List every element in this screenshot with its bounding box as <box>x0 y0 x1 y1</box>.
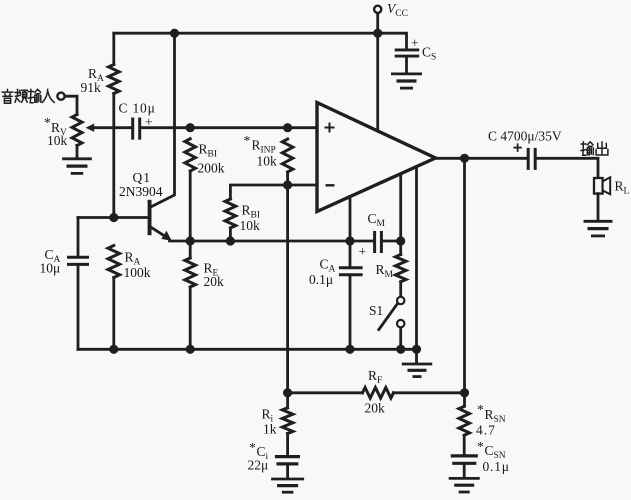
capacitor C 4700u/35V <box>488 129 562 170</box>
svg-text:+: + <box>411 36 419 51</box>
svg-text:20k: 20k <box>204 274 225 289</box>
node RF right junction <box>460 388 469 397</box>
capacitor C 10u coupling <box>119 101 156 140</box>
resistor RM <box>376 241 407 297</box>
resistor RF 20k <box>288 368 465 415</box>
svg-text:2N3904: 2N3904 <box>119 184 163 199</box>
wire output to RF <box>463 158 466 392</box>
svg-text:*: * <box>477 402 484 417</box>
node inverting input junction <box>283 180 292 189</box>
node top rail junction <box>170 29 179 38</box>
node Vcc junction <box>373 29 382 38</box>
node main line RBI junction <box>186 123 195 132</box>
svg-text:1k: 1k <box>263 422 277 437</box>
node RE rail junction <box>186 345 195 354</box>
ground below speaker <box>584 221 613 236</box>
node output junction <box>460 154 469 163</box>
svg-text:Q1: Q1 <box>133 170 152 185</box>
svg-text:*: * <box>477 439 484 454</box>
svg-text:4.7: 4.7 <box>476 423 496 438</box>
resistor RSN 4.7 <box>459 393 506 455</box>
resistor RA 100k <box>108 246 151 350</box>
svg-text:200k: 200k <box>198 161 225 176</box>
wire top supply rail <box>114 32 378 35</box>
svg-text:10k: 10k <box>240 218 261 233</box>
resistor RBI 10k <box>225 185 288 241</box>
node rail end junction <box>412 345 421 354</box>
transistor Q1 2N3904 <box>78 170 172 241</box>
wire input to potentiometer <box>65 96 77 114</box>
svg-text:10k: 10k <box>257 154 278 169</box>
node RF left junction <box>283 388 292 397</box>
svg-text:20k: 20k <box>365 400 386 415</box>
node main line RINP junction <box>283 123 292 132</box>
svg-text:0.1μ: 0.1μ <box>483 459 510 474</box>
wire emitter row <box>170 240 374 243</box>
switch S1 <box>369 297 404 350</box>
potentiometer RV 10k <box>44 115 94 159</box>
svg-text:10μ: 10μ <box>40 261 61 276</box>
ground below Ci <box>271 479 304 492</box>
wire inverting input down to RF node <box>286 185 289 393</box>
svg-text:*: * <box>249 440 256 455</box>
wire op-amp pin to emitter row node <box>349 197 352 242</box>
wire Vcc to op-amp V+ pin <box>376 33 379 131</box>
input terminal <box>57 93 64 100</box>
resistor Ri 1k <box>262 393 293 455</box>
svg-text:91k: 91k <box>81 80 102 95</box>
wire main signal line to op-amp + input <box>141 126 317 129</box>
wire collector to top rail <box>151 33 175 207</box>
capacitor CS <box>378 33 437 73</box>
node base junction <box>109 213 118 222</box>
node CM right junction <box>396 236 405 245</box>
wire bottom rail <box>78 348 417 351</box>
svg-text:*: * <box>244 133 251 148</box>
node audio input label 音频输入 <box>2 89 54 103</box>
node emitter row RBI junction <box>226 236 235 245</box>
node S1 bottom rail junction <box>396 345 405 354</box>
resistor RBI 200k <box>185 139 225 241</box>
svg-text:0.1μ: 0.1μ <box>309 272 333 287</box>
resistor RINP 10k <box>244 133 293 185</box>
ground main <box>415 349 418 363</box>
speaker RL <box>594 177 630 220</box>
capacitor CSN 0.1u <box>451 439 510 477</box>
node op-amp pin junction <box>345 236 354 245</box>
svg-text:C 4700μ/35V: C 4700μ/35V <box>488 129 562 144</box>
ground below RV <box>62 159 92 174</box>
resistor RA 91k <box>81 33 120 217</box>
ground below CSN <box>449 478 480 492</box>
op-amp U1 <box>317 103 436 212</box>
capacitor CA 10u <box>40 218 90 350</box>
resistor RE 20k <box>185 241 224 349</box>
wire cap to speaker <box>537 158 598 178</box>
Vcc terminal <box>374 1 408 33</box>
capacitor CM <box>368 211 401 253</box>
capacitor Ci 22u <box>248 440 301 478</box>
ground below CS <box>391 74 422 88</box>
svg-text:100k: 100k <box>124 265 151 280</box>
node emitter RE junction <box>186 236 195 245</box>
node RA rail junction <box>109 345 118 354</box>
wire wiper to coupling cap <box>93 126 132 129</box>
svg-text:C 10μ: C 10μ <box>119 101 156 116</box>
wire op-amp pin to RM node <box>399 174 402 241</box>
svg-text:10k: 10k <box>47 133 68 148</box>
wire op-amp output <box>436 157 528 160</box>
svg-text:+: + <box>359 244 367 259</box>
node output label 输出 <box>581 142 608 156</box>
svg-text:22μ: 22μ <box>248 458 269 473</box>
wire op-amp ground pin <box>415 167 418 349</box>
svg-text:*: * <box>44 115 51 130</box>
wire to inverting input <box>288 184 317 187</box>
node CA bottom rail junction <box>345 345 354 354</box>
svg-text:S1: S1 <box>369 303 383 318</box>
capacitor CA 0.1u <box>309 241 366 349</box>
